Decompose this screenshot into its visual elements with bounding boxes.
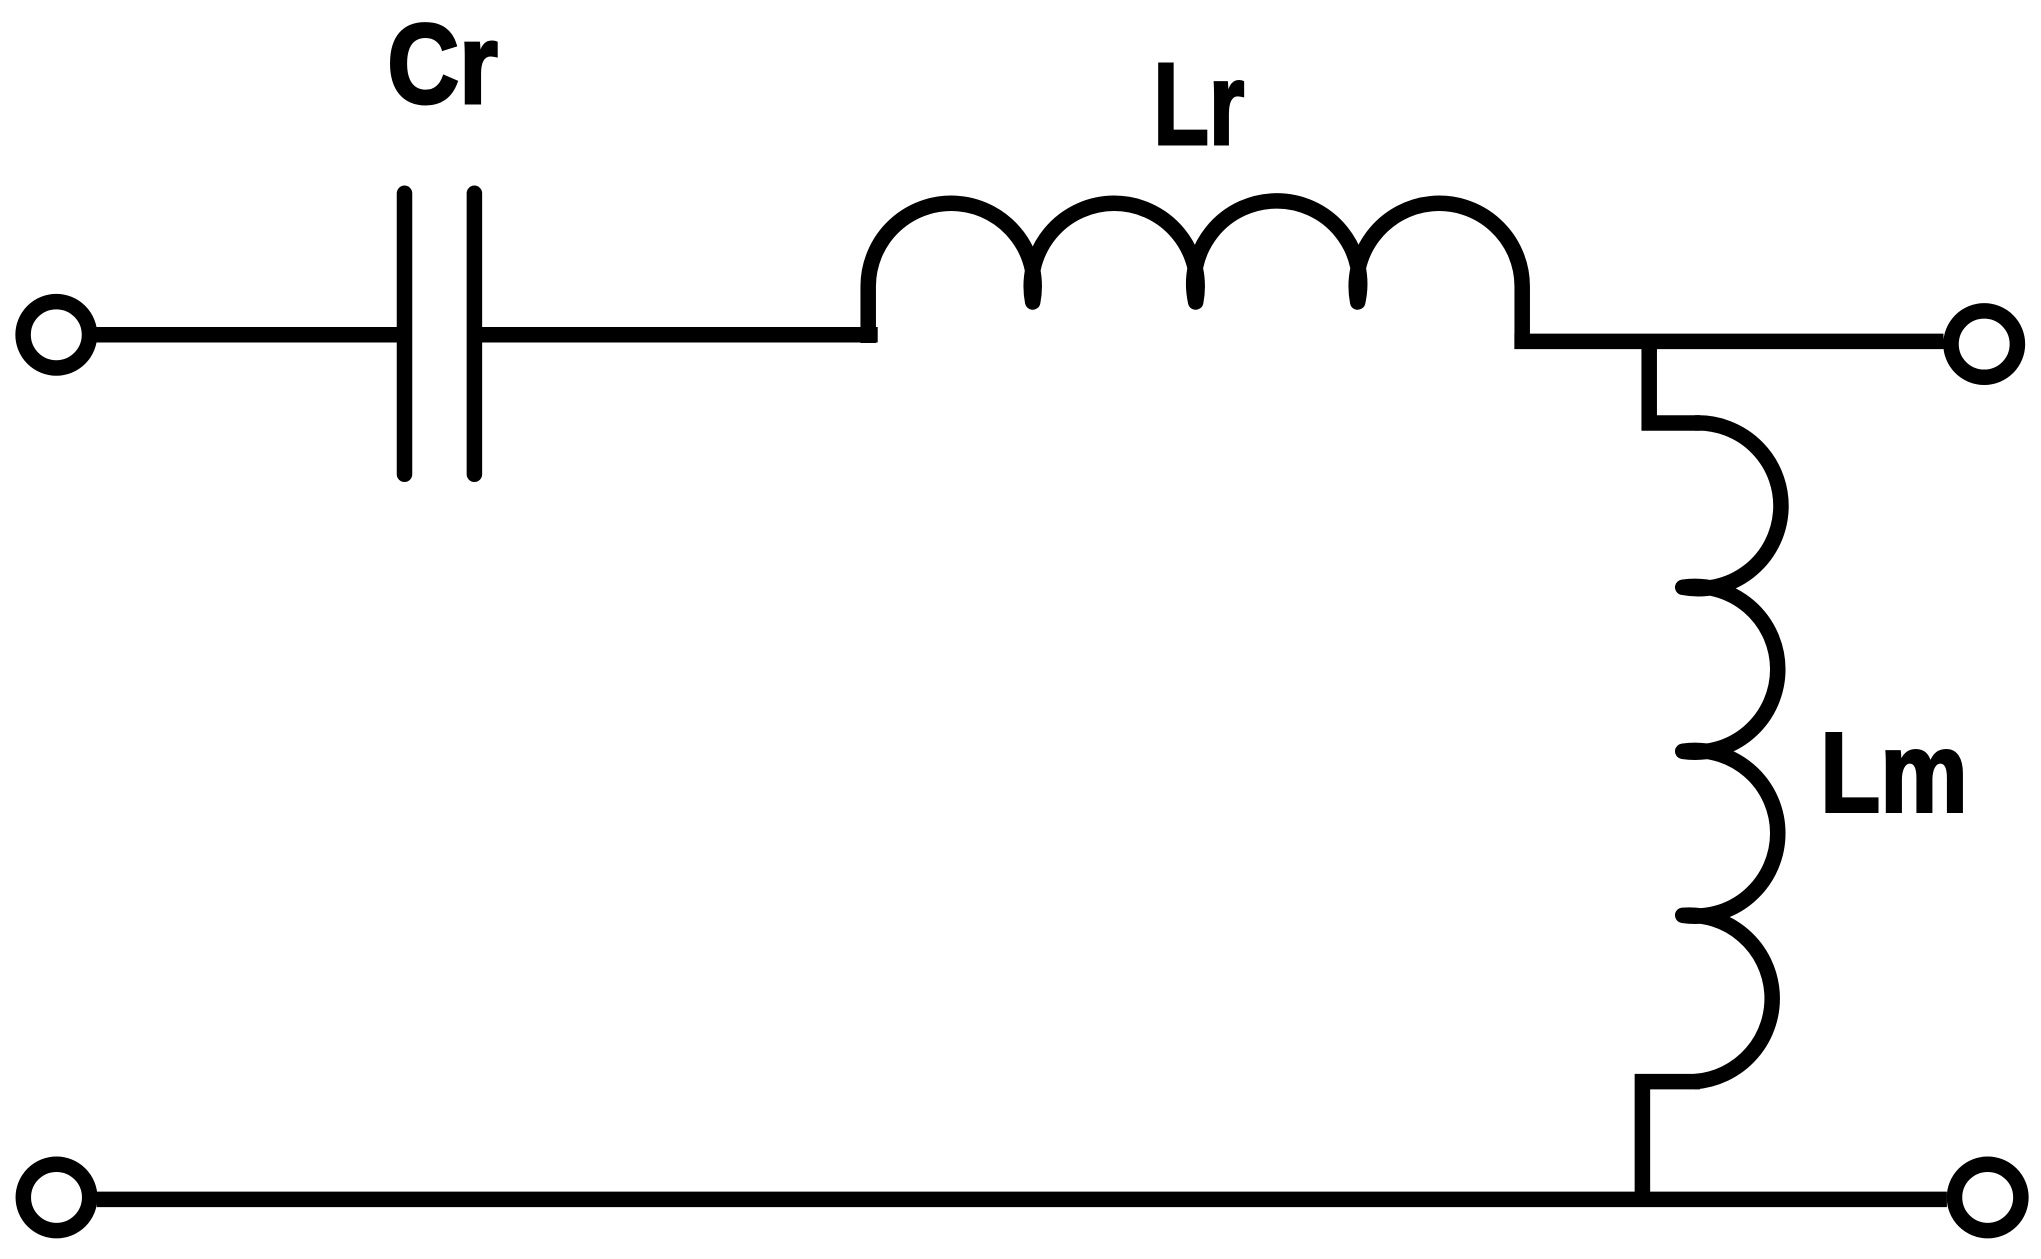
wire capacitor to inductor Lr	[474, 327, 877, 343]
wire bottom (terminal to terminal)	[97, 1192, 1947, 1208]
terminal bottom-right	[1955, 1164, 2021, 1230]
svg-text:Lr: Lr	[1153, 39, 1244, 169]
inductor Lr (4 humps)	[868, 201, 1522, 349]
terminal top-left	[23, 302, 89, 368]
svg-text:Lm: Lm	[1820, 709, 1968, 835]
terminal top-right	[1951, 311, 2017, 377]
terminal bottom-left	[23, 1164, 89, 1230]
capacitor Cr plate right	[467, 193, 483, 474]
capacitor Cr plate left	[397, 193, 413, 474]
inductor Lm (4 humps, vertical)	[1683, 423, 1781, 1082]
wire top-left (terminal to capacitor)	[97, 327, 413, 343]
wire Lm stub bottom (junction to bottom wire)	[1642, 1082, 1700, 1200]
svg-text:Cr: Cr	[387, 1, 498, 127]
wire Lm stub top	[1649, 335, 1700, 423]
wire Lr to terminal top-right	[1514, 334, 1943, 350]
